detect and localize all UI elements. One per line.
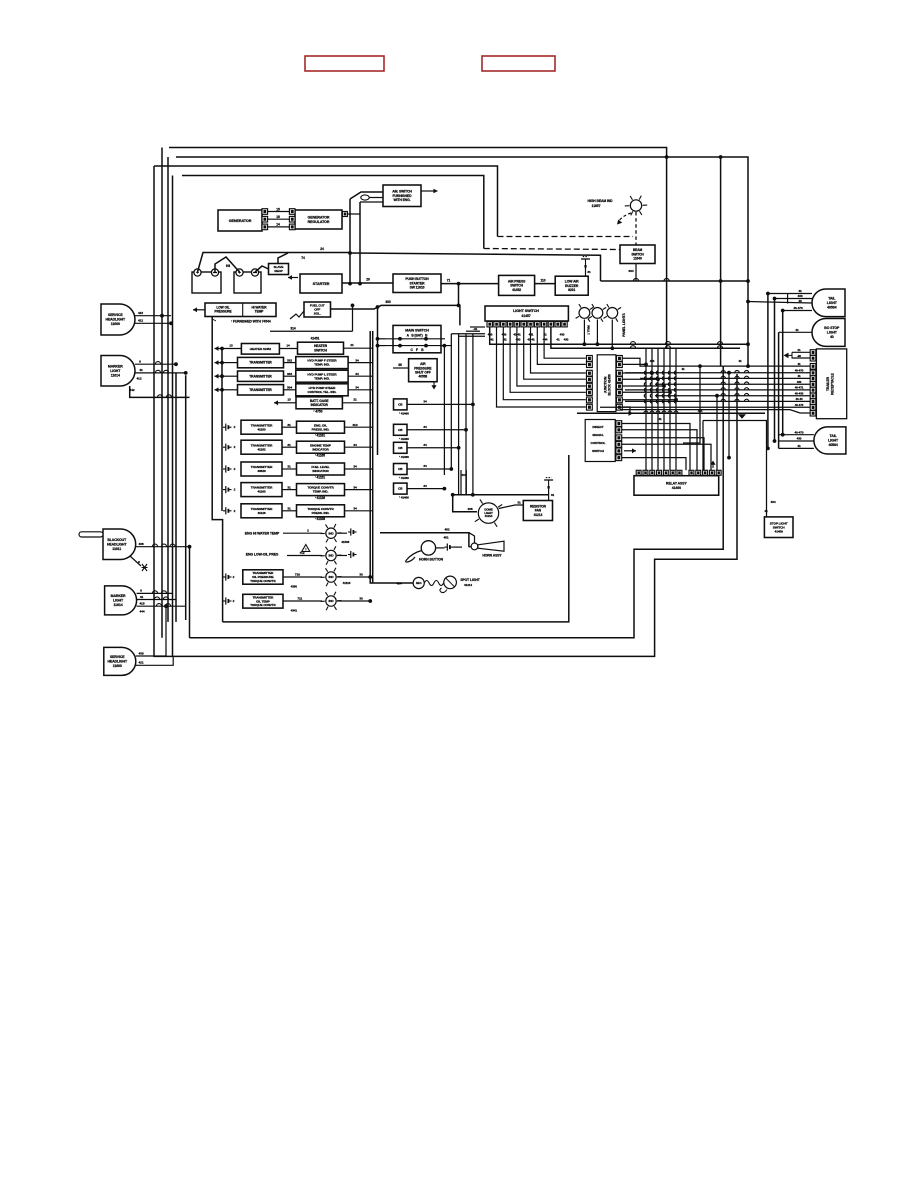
wire dashed 236	[498, 236, 634, 238]
svg-text:415: 415	[140, 602, 145, 606]
junction tfeed 376.2	[220, 374, 224, 378]
svg-text:11600: 11600	[111, 322, 120, 326]
regulator terminal C	[289, 224, 295, 230]
wire transmitter 2 left	[222, 375, 238, 377]
transmitter T3	[238, 385, 284, 395]
svg-text:CONTROL TEL. IND.: CONTROL TEL. IND.	[308, 390, 337, 394]
wire cb3 right	[407, 447, 459, 449]
wire heater left	[222, 348, 241, 350]
battery BT1	[192, 269, 221, 293]
svg-text:34: 34	[423, 425, 427, 429]
svg-text:PRESSURE: PRESSURE	[214, 309, 232, 313]
light switch terminal 8	[535, 322, 540, 327]
wire panel lamp 3 drop	[611, 320, 613, 349]
junction 729 bottom	[727, 456, 731, 460]
wire bus B (top line 2 to right drop)	[176, 157, 748, 366]
svg-text:40: 40	[798, 299, 802, 303]
battery BT2	[234, 269, 261, 293]
transmitter TX7	[241, 483, 282, 497]
relay terminal 7	[677, 470, 682, 475]
wire 420 to stop light switch	[703, 421, 767, 517]
svg-text:438: 438	[139, 542, 144, 546]
red annotation box 2	[482, 56, 555, 71]
wire bundle corner 2	[459, 335, 485, 337]
wire left bus 4	[172, 176, 174, 657]
wire tx5 link	[282, 446, 297, 448]
wire heater switch right	[344, 347, 373, 349]
svg-text:34: 34	[353, 443, 357, 447]
wire indicator right bus 2	[377, 307, 379, 455]
wire 415	[135, 315, 171, 317]
wire vert 717	[716, 396, 718, 471]
junction panel lamp 2	[596, 342, 600, 346]
wire inner frame right to spot light	[370, 331, 413, 583]
main switch contact c	[398, 344, 402, 348]
wire bus 344	[490, 327, 748, 344]
svg-text:41: 41	[798, 289, 802, 293]
svg-text:41214: 41214	[485, 514, 493, 518]
junction block body	[597, 355, 616, 412]
directional signal control switch body	[585, 420, 615, 462]
wire fuel sol squiggle	[290, 311, 304, 319]
svg-text:ʳ 41161: ʳ 41161	[315, 434, 325, 438]
air pressure shutoff valve	[409, 359, 438, 382]
svg-text:TEMP: TEMP	[255, 309, 265, 313]
wire ind3 right	[345, 468, 373, 470]
svg-text:HEADLIGHT: HEADLIGHT	[107, 543, 127, 547]
hop 281-636	[633, 278, 638, 281]
hop 9l-2	[161, 591, 166, 594]
receptacle terminal 2	[810, 355, 816, 361]
svg-text:STARTER: STARTER	[313, 282, 330, 286]
relay terminal 6	[670, 470, 675, 475]
wire bus 409 to receptacle row 11	[620, 410, 810, 413]
wire bundle v1	[443, 346, 445, 475]
svg-text:40: 40	[830, 335, 834, 339]
svg-text:41213: 41213	[534, 513, 543, 517]
svg-text:34: 34	[355, 386, 359, 390]
transmitter TX5	[241, 440, 282, 454]
svg-text:421: 421	[138, 319, 143, 323]
hop 438-1	[152, 544, 157, 547]
svg-text:34: 34	[353, 485, 357, 489]
panel light lamp 3	[604, 304, 622, 322]
light switch terminal 12	[562, 322, 567, 327]
junction 748-366	[746, 364, 750, 368]
wire ind5 right	[345, 510, 373, 512]
svg-text:TRANSMITTER: TRANSMITTER	[249, 374, 272, 378]
wire bundle v2	[450, 334, 452, 470]
wire starter to pushbutton switch	[342, 282, 393, 284]
junction block right terminal 5	[617, 383, 623, 389]
wire relay feed vertical 6	[675, 348, 677, 470]
junction block left terminal 7	[587, 397, 593, 403]
wire vert 768	[767, 294, 769, 449]
wire tail1 430	[775, 298, 813, 300]
svg-text:31: 31	[287, 423, 291, 427]
wire tail2 41	[779, 447, 814, 449]
svg-text:40-470: 40-470	[795, 369, 804, 373]
wire stub	[759, 454, 761, 456]
svg-text:430: 430	[502, 333, 507, 337]
circuit breaker CB5	[394, 483, 408, 494]
wire bat to horn drop	[453, 546, 462, 548]
svg-text:24: 24	[320, 247, 324, 251]
wire relay feed vertical 5	[669, 348, 671, 470]
main switch	[393, 325, 441, 352]
svg-text:41116: 41116	[343, 581, 351, 585]
junction block right terminal 4	[617, 377, 623, 383]
wire vert 787	[787, 294, 789, 304]
wire crossover bumps relay feed verticals	[644, 371, 676, 403]
wire 711	[283, 600, 322, 602]
junction tail1 40	[746, 300, 750, 304]
svg-text:WITH ENG.: WITH ENG.	[393, 198, 410, 202]
wire tail1 40-470	[783, 310, 812, 312]
wire low oil arrow left	[193, 307, 205, 312]
wire eng hi water	[283, 532, 322, 534]
relay terminal 11	[709, 470, 714, 475]
wire am switch feed	[350, 192, 383, 199]
wire optx right	[337, 576, 370, 578]
light switch terminal 6	[521, 322, 526, 327]
hop bus348 668	[665, 346, 670, 349]
lamp torque conv oil pressure	[321, 568, 342, 586]
main switch contact line 1	[385, 338, 445, 340]
svg-text:11657: 11657	[592, 204, 601, 208]
circuit breaker CB3	[394, 442, 408, 453]
hop mesh 723.2-395.7	[721, 394, 725, 396]
svg-text:1 TRIM: 1 TRIM	[587, 325, 591, 335]
hop 41l-1	[154, 597, 159, 600]
wire horn bus	[380, 533, 469, 547]
svg-text:412: 412	[137, 377, 142, 381]
hop 415l-1	[156, 604, 161, 607]
ground resistor fan	[544, 478, 553, 489]
wire bottom line 1 / right inner frame	[223, 455, 569, 622]
hop 413 a	[644, 411, 648, 413]
svg-text:TRANSMITTER: TRANSMITTER	[249, 388, 272, 392]
junction block right terminal 3	[617, 370, 623, 376]
lamp torque conv oil temp	[321, 592, 342, 610]
tail light lower	[814, 427, 846, 454]
junction block left terminal 8	[587, 404, 593, 410]
svg-text:TEMP. IND.: TEMP. IND.	[314, 376, 330, 380]
junction 415	[160, 314, 164, 318]
svg-text:CONTROL: CONTROL	[591, 441, 606, 445]
wire ind4 right	[345, 489, 373, 491]
wire cb2 right	[407, 429, 466, 431]
svg-text:430: 430	[564, 338, 569, 342]
svg-text:41459: 41459	[775, 529, 784, 533]
receptacle hook arrow	[784, 352, 793, 358]
wire am switch feed 2	[360, 201, 383, 203]
wire dome bus	[453, 494, 549, 496]
wire ds to relay 1	[622, 424, 690, 471]
svg-text:31: 31	[551, 493, 555, 497]
wire bundle v3	[458, 334, 460, 495]
svg-text:TORQUE CONVTR: TORQUE CONVTR	[250, 579, 276, 583]
wire bus 413	[577, 412, 765, 414]
svg-text:41: 41	[503, 338, 507, 342]
hop 41u-2	[163, 370, 168, 373]
wire main sw to bundle	[441, 345, 444, 347]
svg-text:454: 454	[397, 582, 402, 586]
wire 71	[441, 283, 499, 285]
svg-text:434: 434	[698, 409, 703, 413]
relay terminal 2	[643, 470, 648, 475]
wire bus A (top line 1 hooks to line 2)	[169, 148, 667, 158]
hop mesh 737-389.9	[735, 388, 739, 390]
wire jb right 5	[622, 391, 670, 393]
svg-text:31: 31	[287, 465, 291, 469]
svg-text:13: 13	[287, 398, 291, 402]
light switch terminal 4	[507, 322, 512, 327]
svg-text:ʳ 41466: ʳ 41466	[399, 411, 409, 415]
svg-text:!: !	[305, 548, 306, 552]
wire jb right 2	[622, 372, 652, 374]
wire 421 lower	[136, 656, 173, 665]
junction jbr 1	[644, 363, 648, 367]
junction cb4	[449, 467, 453, 471]
svg-text:TEMP. IND.: TEMP. IND.	[313, 490, 329, 494]
svg-text:ʳ 4750: ʳ 4750	[314, 410, 323, 414]
wire vert 700	[683, 366, 700, 443]
svg-text:41214: 41214	[464, 583, 472, 587]
svg-text:31: 31	[287, 507, 291, 511]
wire tx6 link	[282, 468, 297, 470]
relay assembly	[634, 476, 719, 496]
svg-text:A B (BAT) B: A B (BAT) B	[407, 334, 428, 338]
junction jbr 6	[674, 398, 678, 402]
wire 36 to air shutoff	[393, 367, 409, 369]
svg-text:SIGNAL: SIGNAL	[592, 433, 603, 437]
svg-text:31: 31	[287, 443, 291, 447]
svg-text:SWITCH: SWITCH	[592, 449, 605, 453]
indicator IND4	[297, 484, 345, 496]
wire battery to slave recp	[255, 266, 269, 272]
wire panel lamp 2 drop	[596, 320, 598, 345]
hop mesh 746.6-389.9	[744, 388, 748, 390]
hop bus348 720	[717, 346, 722, 349]
svg-text:40584: 40584	[827, 306, 836, 310]
svg-text:11614: 11614	[114, 603, 123, 607]
hop bus344 668	[665, 342, 670, 345]
battery symbol oil temp tx	[223, 597, 232, 604]
hop 438-3	[170, 544, 175, 547]
receptacle terminal 11	[810, 410, 816, 416]
hop mesh 737-401.4	[735, 399, 739, 401]
svg-text:41460: 41460	[672, 486, 681, 490]
wire stop1 41	[779, 331, 812, 333]
svg-text:41: 41	[738, 359, 742, 363]
wire left bus 2	[161, 148, 163, 638]
battery symbol row 4	[223, 486, 232, 493]
svg-text:ʳ 41466: ʳ 41466	[399, 476, 409, 480]
regulator output terminal	[342, 212, 347, 217]
relay terminal 12	[716, 470, 721, 475]
svg-text:H3: H3	[226, 264, 230, 268]
wire pushbutton down to 300	[458, 284, 460, 306]
junction ind bus b	[368, 599, 372, 603]
indicator IND1	[297, 421, 345, 433]
svg-text:ʳ 41466: ʳ 41466	[399, 496, 409, 500]
svg-text:INDICATOR: INDICATOR	[311, 403, 329, 407]
wire 110	[535, 283, 556, 285]
heater assembly	[241, 344, 279, 355]
dashed arrow from high beam lamp	[617, 213, 631, 225]
wire left bus 5 (from marker light)	[175, 373, 177, 622]
hop mesh 746.6-395.7	[744, 394, 748, 396]
wire bundle v5	[472, 334, 474, 495]
svg-text:RECEPTACLE: RECEPTACLE	[831, 372, 835, 395]
wire cb5 right	[407, 488, 444, 490]
wire jb row1 right	[622, 358, 723, 366]
junction block right terminal 7	[617, 397, 623, 403]
svg-text:40-470: 40-470	[795, 403, 804, 407]
svg-text:421: 421	[139, 661, 144, 665]
svg-text:442: 442	[130, 388, 135, 392]
svg-text:-90: -90	[797, 354, 801, 358]
relay terminal 4	[657, 470, 662, 475]
hop bus344 720	[717, 342, 722, 345]
svg-text:40-470: 40-470	[793, 306, 803, 310]
wire bottom line 2 stepped	[190, 366, 724, 638]
junction 281 end	[746, 279, 750, 283]
svg-text:LIGHT: LIGHT	[828, 439, 839, 443]
wire tail1 40	[748, 302, 812, 304]
wire 442 upper	[130, 386, 190, 397]
junction block left terminal 1	[587, 356, 593, 362]
svg-text:ENG HI WATER TEMP: ENG HI WATER TEMP	[245, 532, 280, 536]
wire bundle v4	[465, 334, 467, 495]
light switch terminal 2	[494, 322, 499, 327]
svg-text:310: 310	[353, 423, 358, 427]
svg-text:41: 41	[764, 509, 768, 513]
svg-text:41: 41	[490, 338, 494, 342]
svg-text:36: 36	[398, 363, 402, 367]
wire oval to am switch	[369, 197, 383, 199]
svg-text:34: 34	[423, 443, 427, 447]
relay terminal 3	[650, 470, 655, 475]
stop light switch	[764, 517, 793, 538]
wire 415 lower	[137, 605, 186, 607]
red annotation box 1	[305, 56, 384, 71]
wire bus right 2	[625, 372, 810, 374]
wire 9 upper	[135, 363, 176, 365]
indicator hyd 1	[296, 357, 348, 369]
wire bottom line 3 stepped	[173, 374, 737, 656]
wire bus 348	[551, 327, 740, 348]
svg-text:MARKER: MARKER	[111, 594, 126, 598]
junction block right terminal 6	[617, 390, 623, 396]
hop 413 d	[662, 411, 666, 413]
directional switch terminal 3	[616, 435, 622, 441]
wire bus right 4	[655, 383, 810, 385]
wire transmitter 3 left	[222, 389, 238, 391]
svg-text:41: 41	[797, 374, 801, 378]
wire indicator right bus	[372, 331, 374, 583]
svg-text:34: 34	[423, 484, 427, 488]
svg-text:GENERATOR: GENERATOR	[308, 216, 330, 220]
low oil pressure / hi water temp indicator	[205, 303, 276, 317]
hop mesh 737-378.4	[735, 376, 739, 378]
wire jb right 6	[622, 399, 676, 401]
wire to horn	[469, 545, 471, 548]
junction tfeed 348.5	[220, 347, 224, 351]
hop mesh 737-372.7	[735, 371, 739, 373]
wire recp row1	[792, 351, 810, 353]
battery symbol eng hi water	[348, 528, 357, 535]
svg-text:DIRECT: DIRECT	[592, 425, 603, 429]
pushbutton starter switch	[393, 274, 441, 293]
svg-text:ENG LOW-OIL PRES: ENG LOW-OIL PRES	[246, 553, 279, 557]
svg-text:31: 31	[587, 270, 591, 274]
svg-text:438: 438	[468, 507, 473, 511]
trailer receptacle body	[816, 349, 846, 419]
svg-text:BLACKOUT: BLACKOUT	[107, 538, 127, 542]
wire tail1 41	[768, 293, 812, 295]
svg-text:74: 74	[301, 256, 305, 260]
svg-text:41: 41	[797, 444, 801, 448]
wire tail2 40-470	[779, 434, 814, 436]
wire generator lead 14	[268, 226, 289, 228]
svg-text:434: 434	[771, 500, 776, 504]
wire batt gage left	[283, 402, 296, 404]
wire ls fan 3	[510, 327, 586, 392]
hop 413 c	[656, 411, 660, 413]
junction v774 top	[773, 297, 777, 301]
wire generator lead 15	[268, 211, 289, 213]
relay terminal 1	[636, 470, 641, 475]
hop mesh 723.2-401.4	[721, 399, 725, 401]
hop mesh 737-395.7	[735, 394, 739, 396]
spot light plug	[413, 577, 424, 588]
hop 41u-1	[155, 370, 160, 373]
receptacle terminal 6	[810, 382, 816, 388]
wire resistor ground	[548, 489, 550, 501]
wire tx8 link	[282, 510, 297, 512]
directional switch terminal 1	[616, 421, 622, 427]
wire cb4 right	[407, 468, 451, 470]
svg-text:C F B: C F B	[410, 348, 424, 352]
svg-text:332: 332	[287, 358, 292, 362]
arrow heater	[215, 346, 221, 351]
wire furnished note hook	[212, 317, 216, 322]
wire left bus 7 (from blackout headlight)	[189, 547, 191, 638]
svg-text:HEADLIGHT: HEADLIGHT	[107, 660, 127, 664]
svg-text:SW 11610: SW 11610	[410, 286, 425, 290]
junction cb5	[443, 487, 447, 491]
connector oval	[361, 195, 369, 200]
wire ls fan 7	[537, 327, 586, 364]
svg-text:ʳ FURNISHED WITH 74544: ʳ FURNISHED WITH 74544	[231, 320, 271, 324]
junction block right terminal 2	[617, 362, 623, 368]
svg-text:TORQUE CONVTR: TORQUE CONVTR	[250, 603, 276, 607]
svg-text:41: 41	[797, 362, 801, 366]
wire ammeter switch output arrow	[422, 189, 438, 194]
panel light lamp 2	[589, 304, 607, 322]
junction mainsw bundle	[443, 344, 447, 348]
svg-text:41: 41	[658, 417, 662, 421]
directional switch terminal 2	[616, 427, 622, 433]
junction jbr 2	[650, 371, 654, 375]
svg-text:40-43: 40-43	[796, 397, 803, 401]
svg-text:11611: 11611	[112, 547, 121, 551]
svg-text:14: 14	[286, 344, 290, 348]
hop mesh 723.2-372.7	[721, 371, 725, 373]
junction 41u	[184, 371, 188, 375]
